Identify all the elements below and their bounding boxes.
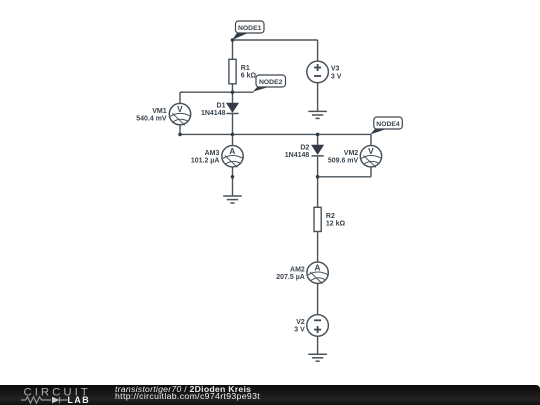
- svg-text:1N4148: 1N4148: [201, 110, 226, 117]
- svg-text:6 kΩ: 6 kΩ: [241, 73, 257, 80]
- svg-text:LAB: LAB: [68, 395, 91, 405]
- svg-text:D2: D2: [300, 144, 309, 151]
- footer text: [115, 385, 251, 394]
- wire VM1 bottom lead: [179, 125, 181, 135]
- svg-text:3 V: 3 V: [294, 327, 305, 334]
- node NODE1: [232, 21, 264, 40]
- svg-text:AM3: AM3: [205, 150, 220, 157]
- junction dot AM3 bottom: [231, 175, 235, 179]
- voltmeter VM1: [136, 103, 190, 125]
- wire AM3 bottom lead: [232, 167, 234, 196]
- wire VM2 to D2 bottom: [318, 176, 371, 178]
- svg-text:NODE1: NODE1: [238, 25, 262, 32]
- wire node to R2 top: [317, 177, 319, 208]
- wire long horizontal net: [180, 133, 371, 135]
- svg-text:3 V: 3 V: [331, 73, 342, 80]
- voltmeter VM2: [328, 146, 382, 168]
- wire VM2 top lead: [370, 134, 372, 145]
- svg-text:V: V: [368, 147, 374, 156]
- wire V3 bottom lead: [317, 83, 319, 112]
- svg-text:V3: V3: [331, 65, 340, 72]
- svg-text:D1: D1: [217, 102, 226, 109]
- junction dot VM1 bottom: [178, 133, 182, 137]
- svg-text:VM2: VM2: [344, 150, 359, 157]
- svg-text:R1: R1: [241, 65, 250, 72]
- svg-text:207.5 µA: 207.5 µA: [276, 274, 305, 281]
- svg-text:R2: R2: [326, 213, 335, 220]
- wire V3 top lead: [317, 40, 319, 61]
- svg-text:509.6 mV: 509.6 mV: [328, 158, 359, 165]
- node NODE2: [253, 75, 286, 92]
- wire AM3 top lead: [232, 134, 234, 145]
- ammeter AM3: [191, 146, 243, 168]
- ground V2: [308, 354, 327, 361]
- svg-text:1N4148: 1N4148: [285, 152, 310, 159]
- diode D2: [285, 144, 324, 159]
- voltage source V3: [307, 61, 342, 83]
- footer bar: [0, 385, 540, 405]
- svg-text:101.2 µA: 101.2 µA: [191, 158, 220, 165]
- wire VM1 top lead: [179, 92, 181, 103]
- junction dot right column: [316, 133, 320, 137]
- ammeter AM2: [276, 262, 328, 284]
- svg-text:V: V: [177, 105, 183, 114]
- ground AM3: [223, 196, 242, 203]
- svg-text:VM1: VM1: [152, 108, 167, 115]
- svg-text:NODE4: NODE4: [376, 121, 400, 128]
- wire NODE2 horizontal: [180, 91, 254, 93]
- wire D2 anode lead: [317, 134, 319, 145]
- diode D1: [201, 102, 239, 117]
- svg-text:NODE2: NODE2: [259, 79, 283, 86]
- wire VM2 bottom lead: [370, 167, 372, 177]
- wire D2 cathode lead: [317, 156, 319, 177]
- resistor R2: [314, 207, 346, 231]
- junction dot node1: [231, 38, 235, 42]
- svg-text:A: A: [229, 147, 235, 156]
- svg-text:540.4 mV: 540.4 mV: [136, 115, 167, 122]
- svg-text:12 kΩ: 12 kΩ: [326, 221, 346, 228]
- svg-text:A: A: [314, 263, 320, 272]
- wire NODE1 top horizontal: [233, 39, 318, 41]
- wire R2 bottom to AM2: [317, 232, 319, 263]
- svg-text:V2: V2: [296, 319, 305, 326]
- resistor R1: [229, 59, 257, 84]
- wire V2 bottom lead: [317, 336, 319, 354]
- voltage source V2: [294, 315, 328, 337]
- node NODE4: [370, 117, 402, 135]
- ground V3: [308, 111, 327, 118]
- wire D1 cathode lead: [232, 114, 234, 135]
- wire AM2 bottom to V2: [317, 283, 319, 315]
- wire R1 bottom to node2: [232, 84, 234, 104]
- junction dot left column: [231, 133, 235, 137]
- CircuitLab logo: [0, 383, 110, 405]
- svg-text:AM2: AM2: [290, 266, 305, 273]
- wire R1 top lead: [232, 40, 234, 59]
- junction dot D2 bottom: [316, 175, 320, 179]
- junction dot node2: [231, 90, 235, 94]
